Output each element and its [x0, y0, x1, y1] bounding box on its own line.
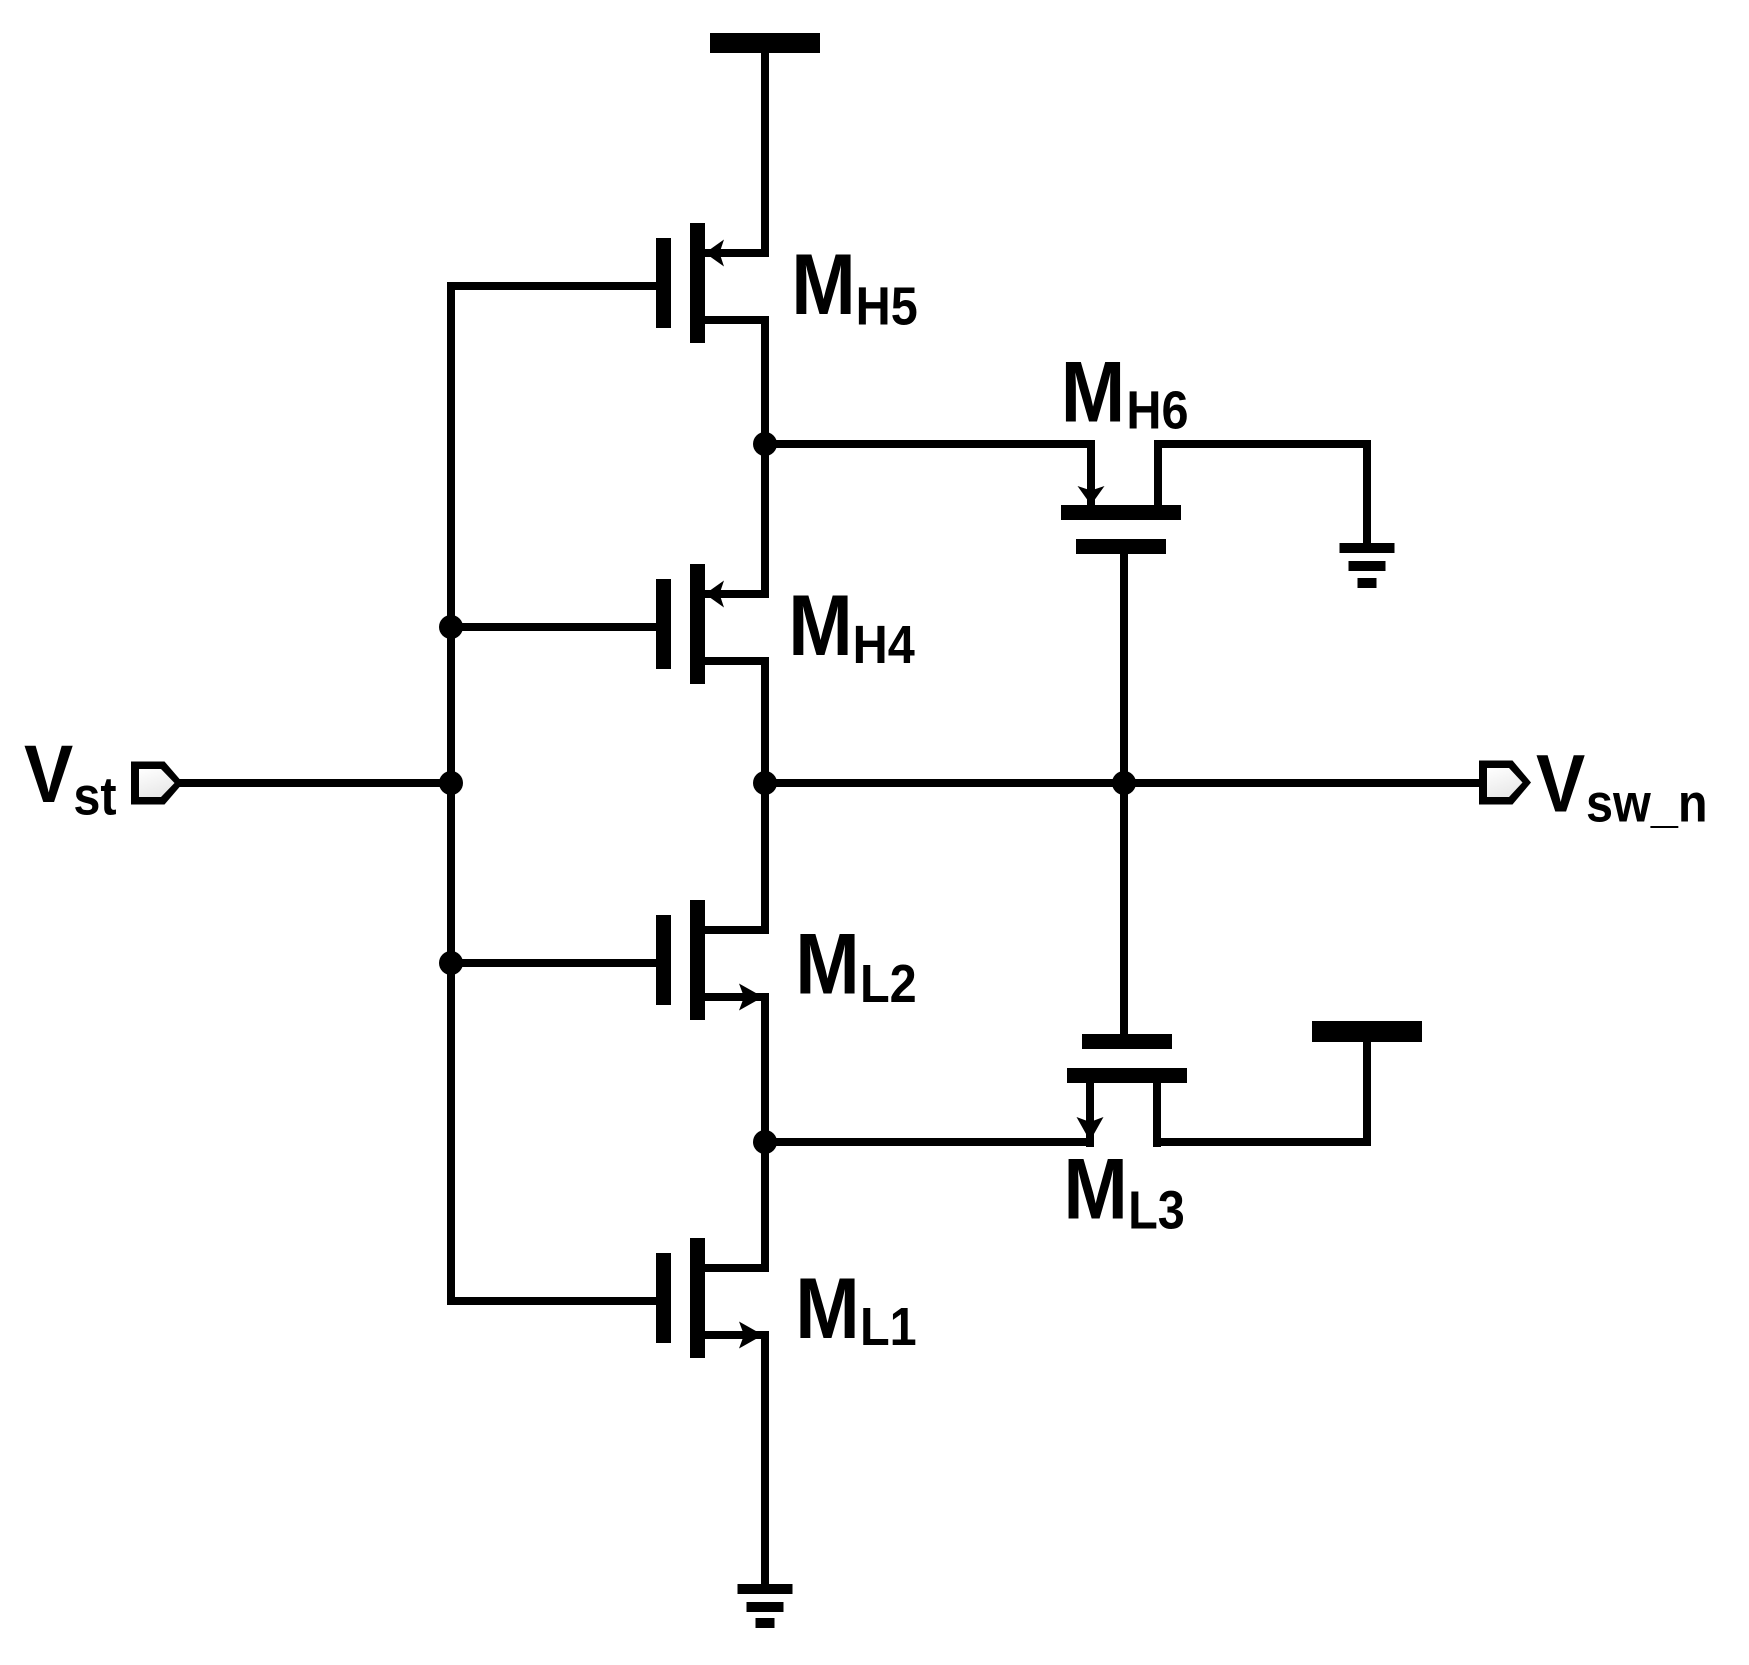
svg-text:L3: L3 — [1128, 1179, 1185, 1240]
svg-text:H5: H5 — [856, 275, 918, 336]
svg-text:L2: L2 — [860, 953, 917, 1014]
svg-text:V: V — [24, 727, 73, 820]
svg-text:H6: H6 — [1126, 379, 1188, 440]
svg-text:M: M — [795, 917, 859, 1013]
svg-text:st: st — [73, 765, 116, 826]
svg-text:M: M — [788, 578, 852, 674]
svg-text:L1: L1 — [860, 1296, 917, 1357]
svg-text:H4: H4 — [853, 614, 916, 675]
svg-text:M: M — [791, 237, 855, 333]
svg-text:M: M — [1061, 345, 1125, 441]
svg-text:M: M — [795, 1261, 859, 1357]
svg-text:sw_n: sw_n — [1586, 772, 1708, 833]
svg-text:M: M — [1063, 1142, 1127, 1238]
svg-text:V: V — [1536, 737, 1585, 830]
